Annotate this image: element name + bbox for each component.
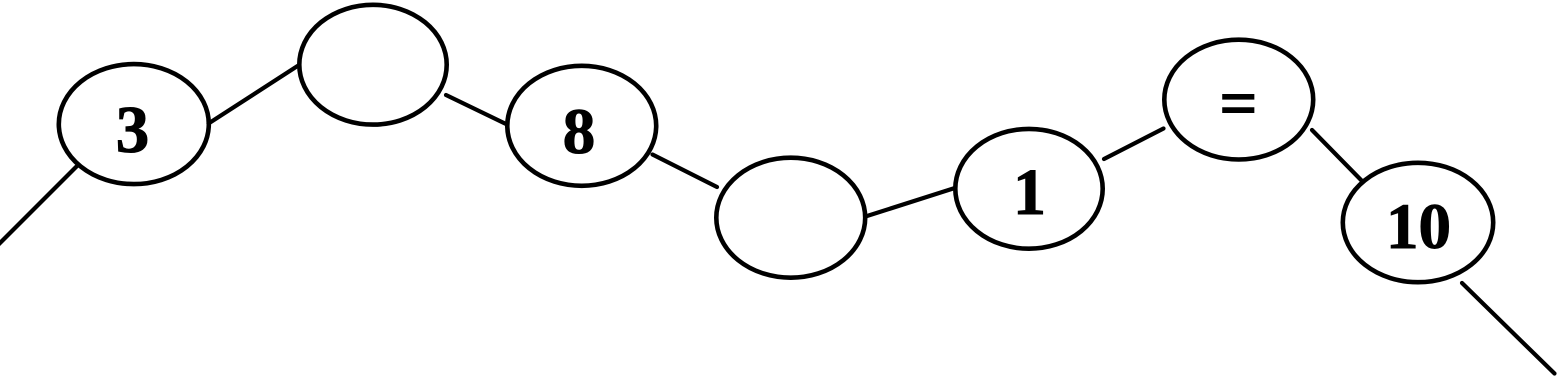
node G value 10	[1343, 163, 1493, 282]
svg-text:1: 1	[1013, 156, 1046, 229]
svg-text:10: 10	[1386, 191, 1451, 263]
wire	[1104, 129, 1164, 160]
node F equals sign	[1164, 40, 1313, 160]
node A value 3	[59, 64, 209, 184]
svg-text:8: 8	[563, 96, 596, 168]
wire	[653, 155, 718, 188]
svg-text:=: =	[1219, 67, 1257, 141]
node C value 8	[507, 66, 656, 186]
node B blank	[299, 5, 446, 125]
wire	[867, 188, 954, 216]
wire	[209, 66, 298, 124]
node D blank	[716, 158, 865, 278]
wire	[1312, 130, 1362, 181]
svg-text:3: 3	[116, 93, 150, 167]
wire	[1462, 283, 1555, 374]
wire	[446, 95, 506, 124]
wire	[0, 166, 77, 246]
node E value 1	[955, 129, 1102, 249]
